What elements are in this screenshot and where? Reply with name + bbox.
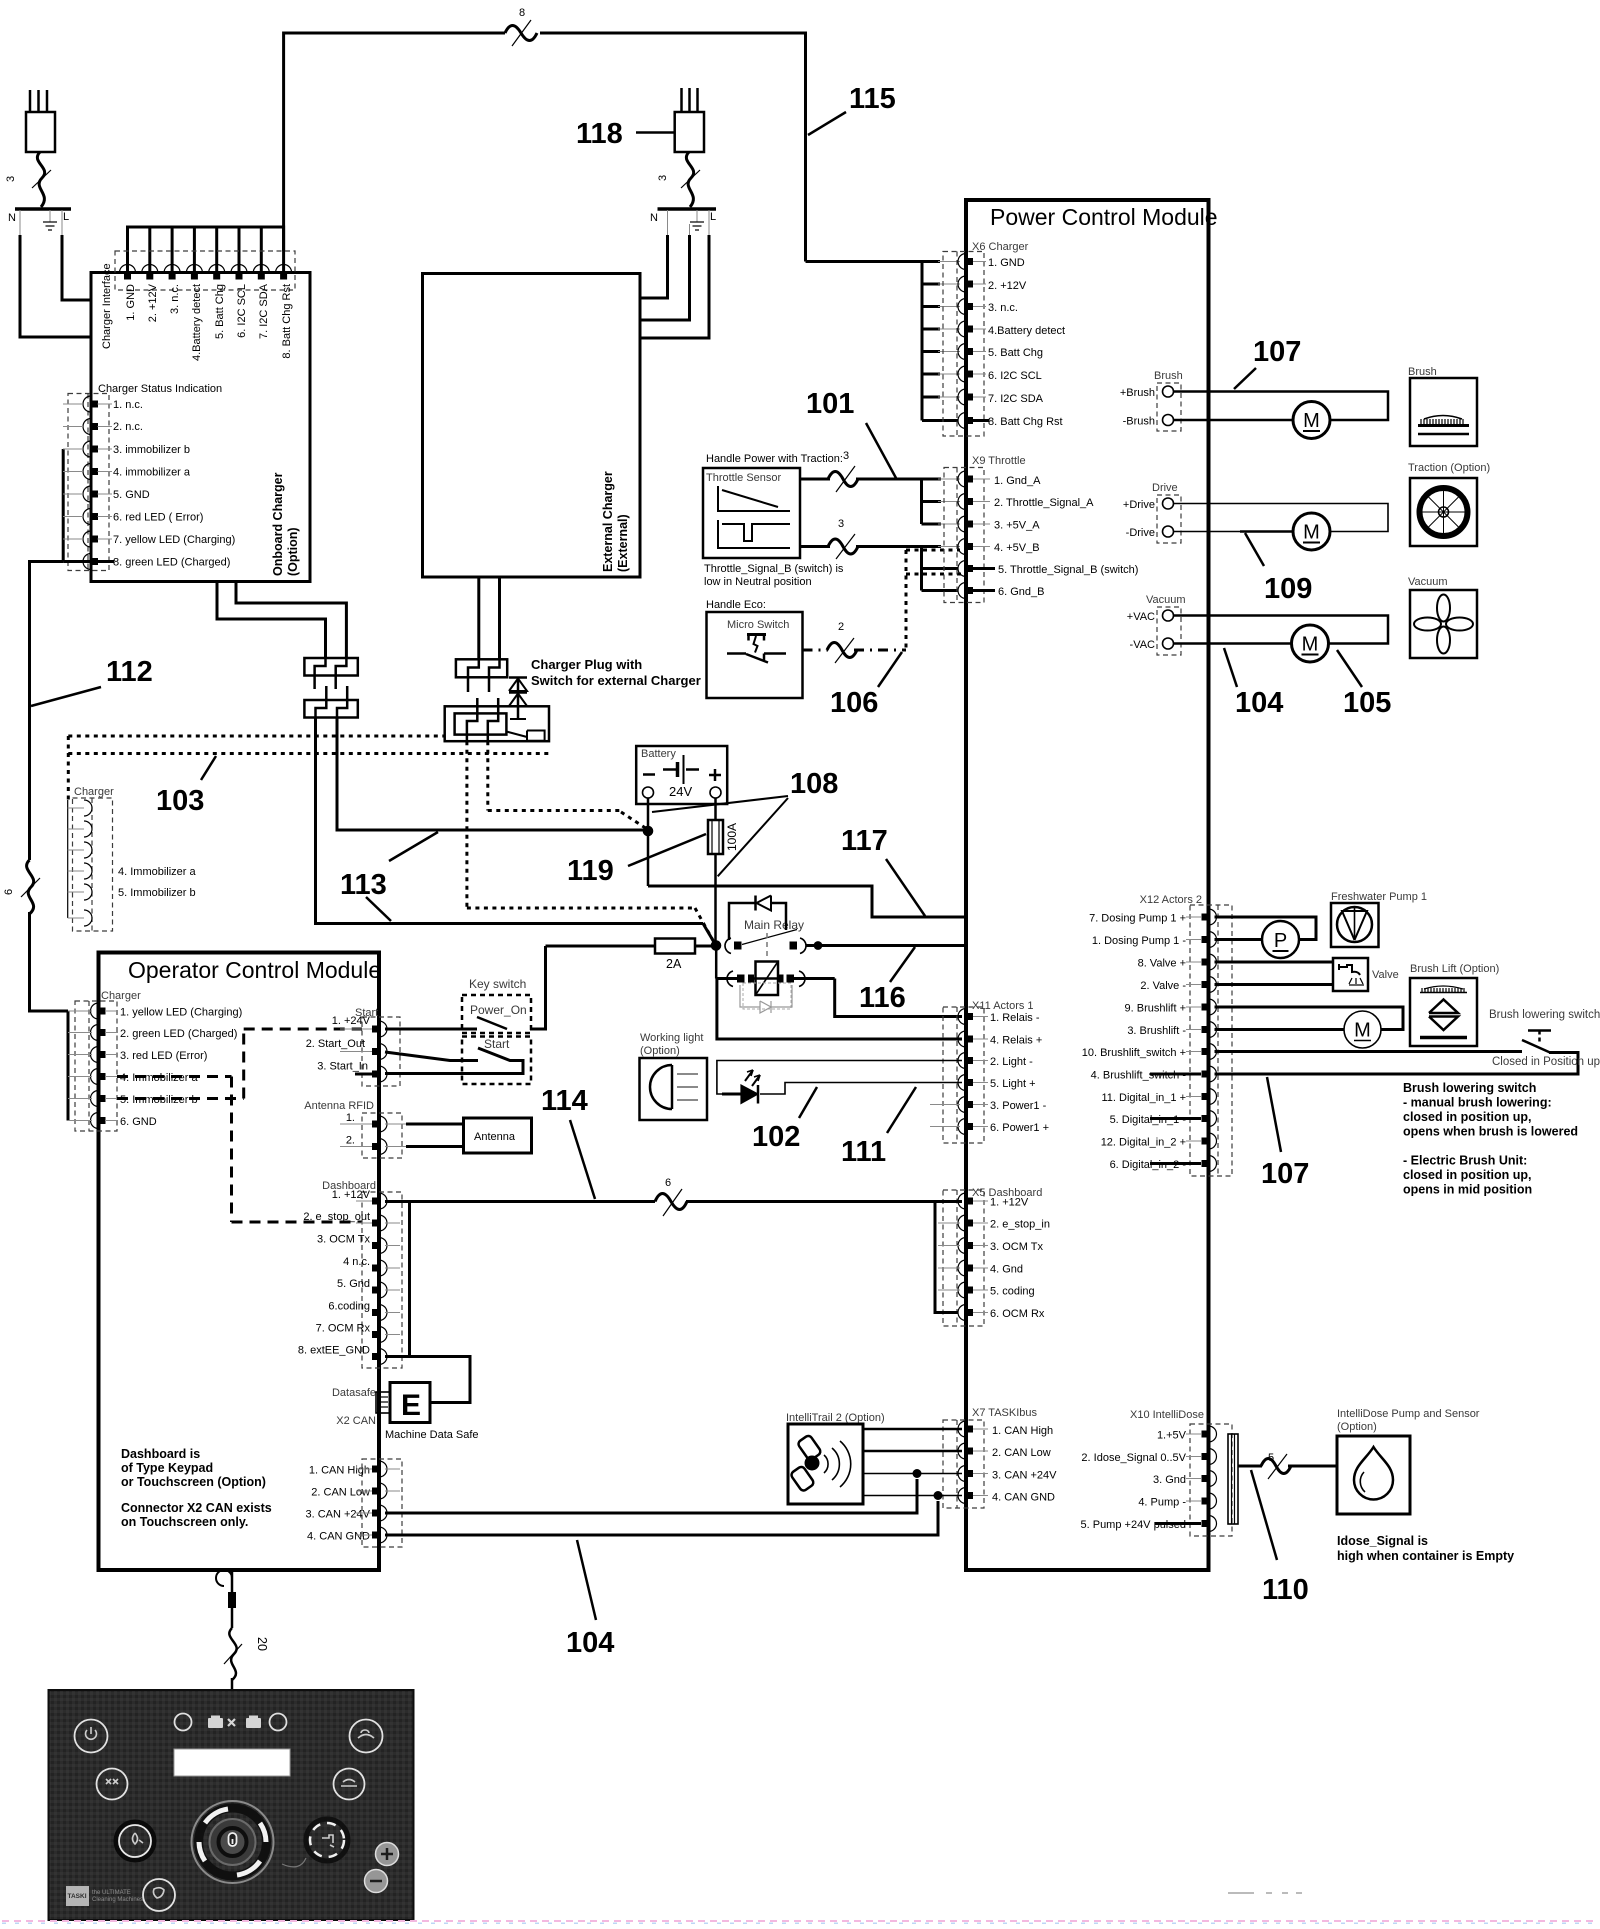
svg-text:4. CAN GND: 4. CAN GND <box>992 1492 1055 1504</box>
svg-text:1. CAN High: 1. CAN High <box>992 1425 1053 1437</box>
svg-text:1. +12V: 1. +12V <box>332 1189 371 1201</box>
svg-text:5. coding: 5. coding <box>990 1286 1035 1298</box>
svg-text:7. I2C SDA: 7. I2C SDA <box>988 393 1044 405</box>
svg-text:102: 102 <box>752 1121 800 1153</box>
svg-text:1. yellow LED (Charging): 1. yellow LED (Charging) <box>120 1007 242 1019</box>
svg-text:10. Brushlift_switch +: 10. Brushlift_switch + <box>1082 1047 1186 1059</box>
svg-text:Vacuum: Vacuum <box>1146 594 1186 606</box>
wire 112 down the left <box>30 562 64 861</box>
status pins 1-8 <box>83 396 98 570</box>
svg-text:104: 104 <box>566 1627 614 1659</box>
svg-text:Brush lowering switch: Brush lowering switch <box>1403 1081 1536 1095</box>
svg-text:(Option): (Option) <box>286 527 300 576</box>
svg-text:X10 IntelliDose: X10 IntelliDose <box>1130 1409 1204 1421</box>
svg-text:113: 113 <box>340 869 387 901</box>
svg-text:2. Throttle_Signal_A: 2. Throttle_Signal_A <box>994 497 1094 509</box>
status wire bundle <box>62 449 65 562</box>
svg-text:1. +24V: 1. +24V <box>332 1015 371 1027</box>
svg-text:4 n.c.: 4 n.c. <box>343 1256 370 1268</box>
svg-text:Working light: Working light <box>640 1032 703 1044</box>
svg-text:3. immobilizer b: 3. immobilizer b <box>113 444 190 456</box>
X6 feed comb <box>806 260 923 263</box>
top small circles and battery icons <box>175 1714 192 1731</box>
svg-text:3: 3 <box>657 175 669 181</box>
AC mains plug right (118) <box>675 88 704 152</box>
svg-text:Brush Lift (Option): Brush Lift (Option) <box>1410 963 1499 975</box>
faint marks bottom <box>1228 1892 1302 1894</box>
svg-text:E: E <box>401 1389 421 1422</box>
dotted wires below charger plug box <box>465 741 468 908</box>
svg-text:114: 114 <box>541 1085 588 1117</box>
svg-text:Power Control Module: Power Control Module <box>990 204 1218 230</box>
wires from right plug to external charger <box>640 210 668 298</box>
svg-text:2A: 2A <box>666 957 682 971</box>
svg-text:X9 Throttle: X9 Throttle <box>972 455 1026 467</box>
svg-text:+VAC: +VAC <box>1127 611 1155 623</box>
svg-text:M: M <box>1302 634 1319 656</box>
svg-text:Start: Start <box>484 1037 510 1051</box>
fuse 2A <box>546 945 656 948</box>
svg-text:External Charger: External Charger <box>601 471 615 572</box>
svg-text:2. CAN Low: 2. CAN Low <box>992 1447 1051 1459</box>
svg-text:N: N <box>8 212 16 224</box>
svg-text:5. Batt Chg: 5. Batt Chg <box>988 347 1043 359</box>
svg-text:104: 104 <box>1235 687 1283 719</box>
svg-text:Charger Plug with: Charger Plug with <box>531 657 642 672</box>
dotted immobilizer lines <box>68 735 444 738</box>
svg-text:Antenna RFID: Antenna RFID <box>304 1100 374 1112</box>
switch inside charger plug box <box>510 718 526 720</box>
svg-text:2. n.c.: 2. n.c. <box>113 421 143 433</box>
svg-text:8. green LED (Charged): 8. green LED (Charged) <box>113 557 230 569</box>
svg-text:Onboard Charger: Onboard Charger <box>271 472 285 576</box>
svg-text:opens when brush is lowered: opens when brush is lowered <box>1403 1125 1578 1139</box>
svg-text:2. Idose_Signal 0..5V: 2. Idose_Signal 0..5V <box>1081 1452 1186 1464</box>
svg-text:100A: 100A <box>725 823 739 851</box>
throttle sensor box <box>703 468 800 558</box>
svg-text:3. Start_In: 3. Start_In <box>317 1061 368 1073</box>
svg-text:4. CAN GND: 4. CAN GND <box>307 1531 370 1543</box>
svg-text:106: 106 <box>830 687 878 719</box>
right buttons <box>334 1720 383 1800</box>
relay drive diode <box>729 903 755 940</box>
svg-text:117: 117 <box>841 825 888 857</box>
svg-text:7. I2C SDA: 7. I2C SDA <box>258 283 270 339</box>
pins 1-8 top edge <box>120 265 136 280</box>
OCM charger bundle <box>67 1011 70 1121</box>
center knob <box>192 1801 274 1883</box>
svg-text:Brush lowering switch: Brush lowering switch <box>1489 1009 1600 1021</box>
svg-text:6: 6 <box>665 1177 671 1189</box>
main node <box>712 941 721 950</box>
svg-text:1. Relais -: 1. Relais - <box>990 1012 1040 1024</box>
connector pair left (lower half) <box>304 686 357 718</box>
svg-text:of Type Keypad: of Type Keypad <box>121 1461 213 1475</box>
svg-text:Throttle_Signal_B (switch) is: Throttle_Signal_B (switch) is <box>704 563 844 575</box>
battery <box>636 746 727 804</box>
relay output wires to X11 <box>835 979 962 1017</box>
svg-text:2: 2 <box>838 621 844 633</box>
antenna box <box>464 1118 532 1153</box>
LCD <box>174 1749 290 1776</box>
BAT GND run <box>648 886 978 917</box>
CAN wires <box>385 1479 917 1513</box>
terminal bar N/PE/L (left) <box>15 207 71 211</box>
svg-text:111: 111 <box>841 1136 886 1168</box>
svg-text:5. Light +: 5. Light + <box>990 1078 1036 1090</box>
svg-text:24V: 24V <box>669 784 692 799</box>
terminal bar N/PE/L (right) <box>658 207 717 211</box>
svg-text:6. OCM Rx: 6. OCM Rx <box>990 1308 1045 1320</box>
battery plus wire <box>714 798 717 820</box>
svg-text:6. I2C SCL: 6. I2C SCL <box>988 370 1042 382</box>
svg-text:or Touchscreen (Option): or Touchscreen (Option) <box>121 1475 266 1489</box>
svg-text:6. I2C SCL: 6. I2C SCL <box>236 284 248 338</box>
svg-text:2. e_stop_out: 2. e_stop_out <box>303 1211 370 1223</box>
svg-text:6. Power1 +: 6. Power1 + <box>990 1122 1049 1134</box>
micro switch cable (dash-dot) <box>803 649 829 652</box>
fuse 100A <box>708 820 723 854</box>
connector body bar <box>1228 1434 1238 1524</box>
wire N to onboard charger <box>20 210 91 337</box>
svg-text:Battery: Battery <box>641 748 676 760</box>
svg-text:20: 20 <box>255 1637 269 1651</box>
svg-text:12. Digital_in_2 +: 12. Digital_in_2 + <box>1101 1137 1186 1149</box>
start wires <box>385 1028 477 1031</box>
X9 combs <box>920 479 923 524</box>
svg-text:Dashboard is: Dashboard is <box>121 1447 200 1461</box>
svg-text:3. Brushlift -: 3. Brushlift - <box>1127 1025 1186 1037</box>
svg-text:1. GND: 1. GND <box>125 284 137 321</box>
svg-text:high when container is Empty: high when container is Empty <box>1337 1549 1514 1563</box>
svg-text:(Option): (Option) <box>1337 1421 1377 1433</box>
svg-text:1. Gnd_A: 1. Gnd_A <box>994 475 1041 487</box>
svg-text:X7 TASKIbus: X7 TASKIbus <box>972 1407 1038 1419</box>
plus minus buttons <box>376 1843 399 1866</box>
cable mark 3 (left plug) <box>37 152 44 207</box>
svg-text:6. Gnd_B: 6. Gnd_B <box>998 586 1044 598</box>
svg-text:6. Digital_in_2 -: 6. Digital_in_2 - <box>1110 1159 1187 1171</box>
svg-text:5. Gnd: 5. Gnd <box>337 1278 370 1290</box>
LED working light <box>722 1093 741 1096</box>
svg-text:2. CAN Low: 2. CAN Low <box>311 1487 370 1499</box>
battery minus wire / node <box>647 798 650 886</box>
logo <box>66 1886 89 1906</box>
charger plug with switch box <box>445 706 549 741</box>
external charger output wires <box>477 577 480 659</box>
svg-text:115: 115 <box>849 83 896 115</box>
svg-text:1. GND: 1. GND <box>988 257 1025 269</box>
svg-text:Brush: Brush <box>1408 366 1437 378</box>
svg-text:2. +12V: 2. +12V <box>988 280 1027 292</box>
svg-text:Vacuum: Vacuum <box>1408 576 1448 588</box>
svg-text:8. extEE_GND: 8. extEE_GND <box>298 1345 370 1357</box>
SEC3 <box>640 891 1600 1197</box>
left buttons <box>75 1720 176 1912</box>
svg-text:IntelliDose Pump and Sensor: IntelliDose Pump and Sensor <box>1337 1408 1480 1420</box>
svg-text:1. n.c.: 1. n.c. <box>113 399 143 411</box>
svg-text:3. OCM Tx: 3. OCM Tx <box>990 1241 1043 1253</box>
svg-text:1. CAN High: 1. CAN High <box>309 1465 370 1477</box>
svg-text:3. OCM Tx: 3. OCM Tx <box>317 1234 370 1246</box>
svg-text:1.+5V: 1.+5V <box>1157 1430 1187 1442</box>
svg-text:118: 118 <box>576 118 623 150</box>
svg-text:8. Batt Chg Rst: 8. Batt Chg Rst <box>988 416 1063 428</box>
svg-text:4. Gnd: 4. Gnd <box>990 1264 1023 1276</box>
svg-text:3. +5V_A: 3. +5V_A <box>994 520 1040 532</box>
svg-text:3. Gnd: 3. Gnd <box>1153 1474 1186 1486</box>
svg-text:Connector X2 CAN exists: Connector X2 CAN exists <box>121 1501 272 1515</box>
svg-text:Datasafe: Datasafe <box>332 1387 376 1399</box>
svg-text:X11 Actors 1: X11 Actors 1 <box>972 1000 1034 1012</box>
svg-text:5. Immobilizer b: 5. Immobilizer b <box>118 887 196 899</box>
svg-text:on Touchscreen only.: on Touchscreen only. <box>121 1515 248 1529</box>
cable mark 3 (right plug) <box>686 152 693 207</box>
svg-text:- Electric Brush Unit:: - Electric Brush Unit: <box>1403 1154 1527 1168</box>
top cable wire with mark 8 <box>284 33 505 251</box>
svg-text:3. CAN +24V: 3. CAN +24V <box>992 1470 1057 1482</box>
svg-text:3. red LED (Error): 3. red LED (Error) <box>120 1050 207 1062</box>
valve box/icon <box>1333 958 1368 991</box>
svg-text:Idose_Signal is: Idose_Signal is <box>1337 1534 1428 1548</box>
svg-text:110: 110 <box>1262 1574 1309 1606</box>
freewheel diode (gray) <box>743 983 791 1009</box>
svg-text:(Option): (Option) <box>640 1045 680 1057</box>
earth symbol (left) <box>43 210 57 230</box>
svg-text:Key switch: Key switch <box>469 977 526 991</box>
svg-text:2. Start_Out: 2. Start_Out <box>306 1038 365 1050</box>
svg-text:112: 112 <box>106 656 153 688</box>
svg-text:- manual brush lowering:: - manual brush lowering: <box>1403 1096 1552 1110</box>
svg-text:-Drive: -Drive <box>1126 527 1155 539</box>
svg-text:Charger: Charger <box>101 990 141 1002</box>
control panel wire <box>231 1570 234 1594</box>
svg-text:6. red LED ( Error): 6. red LED ( Error) <box>113 512 203 524</box>
connector pair left (upper half) <box>304 658 357 689</box>
brushlift motor <box>1215 1007 1404 1030</box>
svg-text:5. Digital_in_1 -: 5. Digital_in_1 - <box>1110 1114 1187 1126</box>
svg-text:4. +5V_B: 4. +5V_B <box>994 542 1040 554</box>
svg-text:8: 8 <box>519 7 525 19</box>
SEC1 <box>217 7 1060 1039</box>
earth symbol (right) <box>690 210 704 230</box>
svg-text:Charger Interface: Charger Interface <box>101 263 113 349</box>
svg-text:4. immobilizer a: 4. immobilizer a <box>113 467 191 479</box>
throttle wires with cable marks <box>800 478 830 481</box>
svg-text:M: M <box>1354 1020 1371 1042</box>
svg-text:9. Brushlift +: 9. Brushlift + <box>1125 1003 1186 1015</box>
svg-text:2. e_stop_in: 2. e_stop_in <box>990 1219 1050 1231</box>
svg-text:+Drive: +Drive <box>1123 499 1155 511</box>
SEC4 <box>68 953 1050 1660</box>
svg-text:107: 107 <box>1261 1158 1309 1190</box>
dosing pump P <box>1215 917 1317 940</box>
svg-text:3: 3 <box>5 176 17 182</box>
svg-text:4. Immobilizer a: 4. Immobilizer a <box>118 866 197 878</box>
svg-text:7. OCM Rx: 7. OCM Rx <box>316 1323 371 1335</box>
svg-text:Closed in Position up: Closed in Position up <box>1492 1056 1600 1068</box>
dashboard cable wire with mark 6 <box>410 1200 656 1203</box>
svg-text:4. Brushlift_switch -: 4. Brushlift_switch - <box>1091 1070 1187 1082</box>
svg-text:108: 108 <box>790 768 838 800</box>
svg-text:7. Dosing Pump 1 +: 7. Dosing Pump 1 + <box>1089 913 1186 925</box>
svg-text:Micro Switch: Micro Switch <box>727 619 789 631</box>
svg-text:6: 6 <box>3 889 15 895</box>
dotted micro switch wires <box>906 549 960 552</box>
svg-text:5: 5 <box>1268 1452 1274 1464</box>
wires from lower connector halves to node <box>316 718 704 924</box>
svg-text:opens in mid position: opens in mid position <box>1403 1183 1532 1197</box>
svg-text:7. yellow LED (Charging): 7. yellow LED (Charging) <box>113 534 235 546</box>
wire to +BAT 24V <box>806 944 979 947</box>
svg-text:1. +12V: 1. +12V <box>990 1197 1029 1209</box>
charger interface top pin bus <box>128 227 284 272</box>
svg-text:3. n.c.: 3. n.c. <box>169 284 181 314</box>
svg-text:5. Throttle_Signal_B (switch): 5. Throttle_Signal_B (switch) <box>998 564 1138 576</box>
svg-text:Brush: Brush <box>1154 370 1183 382</box>
svg-text:3. CAN +24V: 3. CAN +24V <box>305 1509 370 1521</box>
svg-text:5. Batt Chg: 5. Batt Chg <box>214 284 226 339</box>
svg-text:109: 109 <box>1264 573 1312 605</box>
svg-text:L: L <box>710 211 716 223</box>
svg-text:4.Battery detect: 4.Battery detect <box>988 325 1065 337</box>
svg-text:116: 116 <box>859 982 906 1014</box>
svg-text:Freshwater Pump 1: Freshwater Pump 1 <box>1331 891 1427 903</box>
svg-text:4. Pump -: 4. Pump - <box>1138 1497 1186 1509</box>
svg-text:P: P <box>1274 930 1287 952</box>
motor M brush <box>1293 402 1330 439</box>
svg-text:101: 101 <box>806 388 854 420</box>
svg-text:Handle Eco:: Handle Eco: <box>706 599 766 611</box>
IntelliTrail wires <box>863 1428 962 1431</box>
svg-text:2. Light -: 2. Light - <box>990 1056 1033 1068</box>
working light wires <box>717 1061 962 1095</box>
small connector line <box>282 1858 306 1867</box>
svg-text:3. n.c.: 3. n.c. <box>988 302 1018 314</box>
svg-text:Power_On: Power_On <box>470 1003 527 1017</box>
svg-text:IntelliTrail 2 (Option): IntelliTrail 2 (Option) <box>786 1412 885 1424</box>
svg-text:+Brush: +Brush <box>1120 387 1155 399</box>
svg-text:Traction (Option): Traction (Option) <box>1408 462 1490 474</box>
svg-text:8. Batt Chg Rst: 8. Batt Chg Rst <box>281 284 293 359</box>
SEC2 <box>703 200 1490 1570</box>
key power wire down <box>530 946 546 1029</box>
svg-text:2. +12V: 2. +12V <box>147 283 159 322</box>
svg-text:Handle Power with Traction:: Handle Power with Traction: <box>706 453 843 465</box>
svg-text:3. Power1 -: 3. Power1 - <box>990 1100 1047 1112</box>
diodes above switch box <box>509 677 527 719</box>
svg-text:119: 119 <box>567 855 614 887</box>
svg-text:11. Digital_in_1 +: 11. Digital_in_1 + <box>1102 1092 1187 1104</box>
dashboard comb <box>385 1200 410 1203</box>
SEC5 <box>2 1407 1598 1923</box>
svg-text:3: 3 <box>843 450 849 462</box>
svg-text:the ULTIMATE: the ULTIMATE <box>92 1890 131 1896</box>
svg-text:5. GND: 5. GND <box>113 489 150 501</box>
svg-text:Charger Status Indication: Charger Status Indication <box>98 383 222 395</box>
svg-text:X12 Actors 2: X12 Actors 2 <box>1140 894 1202 906</box>
svg-text:M: M <box>1303 410 1320 432</box>
svg-text:105: 105 <box>1343 687 1391 719</box>
connector Charger Interface dashed box <box>115 251 295 290</box>
dashed immobilizer wires inside OCM <box>117 1075 232 1078</box>
IntelliDose wire <box>1238 1465 1262 1468</box>
brush lowering switch wires <box>1215 1050 1523 1053</box>
svg-text:103: 103 <box>156 785 204 817</box>
svg-text:N: N <box>650 212 658 224</box>
svg-text:closed in position up,: closed in position up, <box>1403 1110 1531 1124</box>
svg-text:Drive: Drive <box>1152 482 1178 494</box>
svg-text:4. Relais +: 4. Relais + <box>990 1035 1042 1047</box>
svg-text:X2 CAN: X2 CAN <box>336 1415 376 1427</box>
svg-text:Cleaning Machines: Cleaning Machines <box>92 1897 143 1903</box>
wire L to onboard charger <box>62 210 91 300</box>
svg-text:closed in position up,: closed in position up, <box>1403 1168 1531 1182</box>
svg-text:Machine Data Safe: Machine Data Safe <box>385 1429 479 1441</box>
svg-text:2. green LED (Charged): 2. green LED (Charged) <box>120 1028 237 1040</box>
svg-text:1. Dosing Pump 1 -: 1. Dosing Pump 1 - <box>1092 935 1186 947</box>
svg-text:8. Valve +: 8. Valve + <box>1138 958 1186 970</box>
svg-text:4.Battery detect: 4.Battery detect <box>191 284 203 361</box>
svg-text:2.: 2. <box>346 1135 355 1147</box>
Power Control Module box <box>966 200 1209 1570</box>
svg-text:Antenna: Antenna <box>474 1131 516 1143</box>
svg-text:-Brush: -Brush <box>1123 416 1155 428</box>
svg-text:TASKI: TASKI <box>68 1893 87 1900</box>
svg-text:Switch for external Charger: Switch for external Charger <box>531 673 701 688</box>
svg-text:M: M <box>1303 522 1320 544</box>
svg-text:2. Valve -: 2. Valve - <box>1140 980 1186 992</box>
valve wires <box>1215 961 1334 964</box>
svg-text:low in Neutral position: low in Neutral position <box>704 576 812 588</box>
svg-text:Valve: Valve <box>1372 969 1399 981</box>
svg-text:1.: 1. <box>346 1112 355 1124</box>
svg-text:6. GND: 6. GND <box>120 1116 157 1128</box>
svg-text:Charger: Charger <box>74 786 114 798</box>
AC mains plug left <box>26 90 55 152</box>
onboard charger output wires <box>217 582 326 659</box>
svg-text:Operator Control Module: Operator Control Module <box>128 957 381 983</box>
svg-text:(External): (External) <box>616 514 630 572</box>
svg-text:3: 3 <box>838 518 844 530</box>
connector middle (upper half) <box>456 659 507 692</box>
svg-text:Throttle Sensor: Throttle Sensor <box>706 472 782 484</box>
relay coil <box>756 962 779 996</box>
svg-text:L: L <box>63 211 69 223</box>
svg-text:6.coding: 6.coding <box>328 1301 370 1313</box>
onboard charger box <box>91 273 310 582</box>
external charger box <box>423 274 641 578</box>
svg-text:107: 107 <box>1253 336 1301 368</box>
svg-text:-VAC: -VAC <box>1130 639 1156 651</box>
